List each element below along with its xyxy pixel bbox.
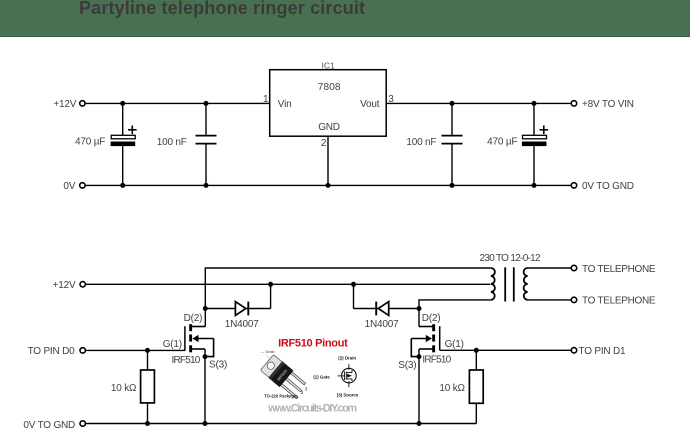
- wire secondary bottom to telephone: [528, 299, 572, 301]
- node TO TELEPHONE terminal bottom: [571, 297, 576, 302]
- svg-text:10 kΩ: 10 kΩ: [111, 383, 137, 394]
- svg-text:1N4007: 1N4007: [365, 319, 399, 330]
- wire Q1 gate: [86, 348, 185, 353]
- svg-text:+12V: +12V: [53, 99, 76, 110]
- svg-text:1: 1: [263, 94, 269, 105]
- node +12V terminal (bottom section): [80, 282, 85, 287]
- op-amp IC1 7808 regulator box: [270, 70, 387, 137]
- wire +8V rail right: [386, 102, 571, 104]
- wire 0V rail (top section): [86, 184, 572, 186]
- svg-text:+8V TO VIN: +8V TO VIN: [582, 99, 634, 110]
- header bar: [0, 0, 690, 37]
- node +12V terminal (top section): [80, 101, 85, 106]
- inset circle symbol: [338, 364, 357, 387]
- svg-text:470 µF: 470 µF: [487, 137, 517, 148]
- wire Q2 gate: [440, 348, 572, 353]
- svg-text:(3) Source: (3) Source: [337, 392, 359, 397]
- svg-text:Vout: Vout: [360, 99, 380, 110]
- node TO PIN D0 terminal: [80, 348, 85, 353]
- svg-text:S(3): S(3): [209, 360, 227, 371]
- title: [79, 0, 365, 17]
- resistor R2 10k: [469, 350, 483, 423]
- wire transformer primary bottom to Q2 drain: [419, 300, 491, 327]
- svg-text:IC1: IC1: [321, 60, 335, 70]
- svg-text:TO-220 Package: TO-220 Package: [264, 394, 297, 399]
- svg-text:230 TO 12-0-12: 230 TO 12-0-12: [479, 253, 541, 264]
- inset TO-220 package drawing: [260, 354, 309, 400]
- svg-text:G(1): G(1): [163, 339, 182, 350]
- capacitor C3 100nF: [442, 101, 463, 188]
- svg-text:D(2): D(2): [184, 313, 203, 324]
- diode D2 1N4007: [351, 282, 422, 316]
- svg-text:470 µF: 470 µF: [75, 137, 105, 148]
- svg-text:3: 3: [388, 94, 394, 105]
- svg-text:TO TELEPHONE: TO TELEPHONE: [582, 296, 656, 307]
- node 0V terminal left: [80, 183, 85, 188]
- transistor Q2 IRF510: [411, 324, 439, 423]
- capacitor C1 470uF: [111, 101, 137, 188]
- svg-text:D(2): D(2): [422, 313, 441, 324]
- transformer T1 core: [505, 267, 514, 301]
- svg-text:1N4007: 1N4007: [225, 319, 259, 330]
- svg-text:IRF510: IRF510: [422, 355, 451, 366]
- node +8V TO VIN terminal: [571, 101, 576, 106]
- wire 0V rail (bottom section): [86, 421, 476, 426]
- svg-text:G(1): G(1): [445, 339, 464, 350]
- svg-text:2: 2: [321, 138, 327, 149]
- wire secondary top to telephone: [528, 267, 572, 269]
- svg-text:2: 2: [301, 390, 304, 395]
- wire transformer primary top to Q1 drain: [205, 268, 491, 327]
- svg-text:GND: GND: [318, 122, 340, 133]
- svg-text:← Drain: ← Drain: [261, 350, 275, 354]
- svg-text:0V: 0V: [63, 181, 75, 192]
- node 0V TO GND terminal (bottom): [80, 421, 85, 426]
- svg-text:TO PIN D1: TO PIN D1: [579, 346, 627, 357]
- transformer T1 secondary winding: [524, 268, 528, 300]
- svg-text:IRF510: IRF510: [172, 355, 201, 366]
- diode D1 1N4007: [203, 282, 273, 316]
- capacitor C2 100nF: [196, 101, 217, 188]
- wire IC1 GND pin 2: [326, 136, 331, 188]
- resistor R1 10k: [141, 350, 155, 426]
- node 0V TO GND terminal right: [571, 183, 576, 188]
- svg-text:0V TO GND: 0V TO GND: [23, 420, 75, 431]
- capacitor C4 470uF: [522, 101, 548, 188]
- svg-text:TO TELEPHONE: TO TELEPHONE: [582, 264, 656, 275]
- svg-text:(1) Gate: (1) Gate: [313, 375, 330, 380]
- svg-text:TO PIN D0: TO PIN D0: [28, 346, 76, 357]
- svg-text:100 nF: 100 nF: [406, 137, 436, 148]
- svg-text:+12V: +12V: [53, 280, 76, 291]
- node TO PIN D1 terminal: [571, 348, 576, 353]
- svg-text:0V TO GND: 0V TO GND: [582, 181, 634, 192]
- svg-text:(2) Drain: (2) Drain: [338, 355, 356, 360]
- transformer T1 primary winding: [491, 268, 495, 300]
- node TO TELEPHONE terminal top: [571, 265, 576, 270]
- svg-text:3: 3: [305, 387, 308, 392]
- svg-text:Vin: Vin: [278, 99, 292, 110]
- svg-text:7808: 7808: [318, 82, 341, 93]
- svg-text:100 nF: 100 nF: [157, 137, 187, 148]
- transistor Q1 IRF510: [185, 324, 214, 423]
- svg-text:S(3): S(3): [398, 360, 416, 371]
- inset label 4 Drain: [261, 350, 275, 360]
- wire +12V rail to transformer centre tap: [86, 283, 490, 285]
- wire +12V rail left: [86, 102, 270, 104]
- svg-text:www.Circuits-DIY.com: www.Circuits-DIY.com: [267, 403, 356, 415]
- svg-text:10 kΩ: 10 kΩ: [439, 383, 465, 394]
- svg-text:IRF510 Pinout: IRF510 Pinout: [278, 338, 348, 350]
